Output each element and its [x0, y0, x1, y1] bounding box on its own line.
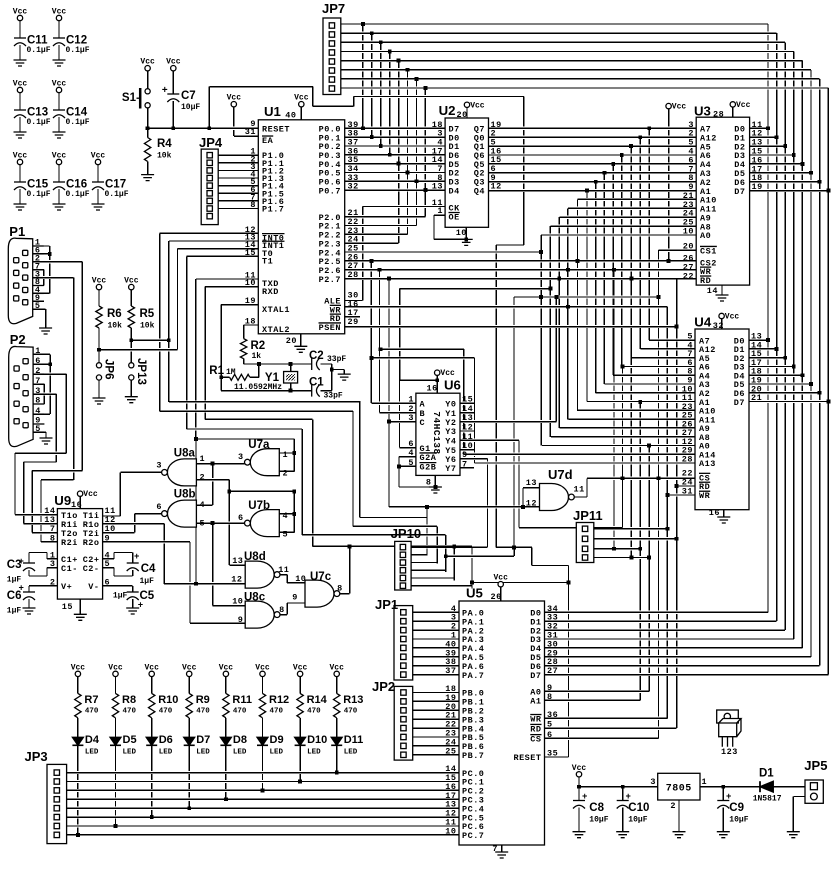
svg-text:Vcc: Vcc [124, 277, 139, 286]
svg-text:36: 36 [547, 710, 558, 720]
resistor R5 10k with JP13 [129, 284, 134, 289]
svg-text:Vcc: Vcc [293, 663, 308, 672]
svg-text:470: 470 [85, 708, 99, 716]
svg-text:Vcc: Vcc [13, 80, 28, 89]
svg-text:Vcc: Vcc [227, 94, 242, 103]
LED D4 [72, 737, 83, 745]
svg-text:A13: A13 [699, 459, 716, 469]
capacitor C13 0.1uF with Vcc and ground [17, 87, 22, 92]
wire crystal caps to ground [338, 374, 351, 380]
IC U5 8255 PPI [459, 601, 545, 845]
svg-text:28: 28 [348, 270, 359, 280]
svg-text:R7: R7 [84, 694, 98, 706]
capacitor C12 0.1uF with Vcc and ground [56, 15, 61, 20]
svg-text:35: 35 [547, 749, 558, 759]
svg-text:R9: R9 [196, 694, 210, 706]
svg-text:G2B: G2B [420, 463, 437, 473]
resistor R6 10k with JP6 [96, 284, 101, 289]
svg-text:R10: R10 [158, 694, 178, 706]
svg-text:1: 1 [702, 777, 708, 787]
svg-text:11: 11 [278, 565, 289, 575]
svg-text:0.1μF: 0.1μF [27, 118, 51, 127]
svg-text:10k: 10k [140, 322, 155, 331]
svg-text:10: 10 [683, 227, 694, 237]
svg-text:5: 5 [200, 519, 206, 529]
svg-text:Vcc: Vcc [91, 152, 106, 161]
svg-text:P0.7: P0.7 [319, 186, 341, 196]
svg-text:Vcc: Vcc [144, 663, 159, 672]
svg-text:R2o: R2o [83, 538, 100, 548]
Vcc pin 20 of U2 [464, 102, 469, 107]
svg-text:+: + [134, 552, 140, 562]
svg-text:10k: 10k [157, 152, 172, 161]
LED D11 [331, 737, 342, 745]
svg-text:10: 10 [456, 228, 467, 238]
Vcc pin 40 of U1 [299, 102, 304, 107]
svg-text:33pF: 33pF [324, 392, 343, 401]
svg-text:2: 2 [670, 801, 676, 811]
svg-text:20: 20 [286, 336, 297, 346]
svg-text:8: 8 [50, 533, 56, 543]
svg-text:JP11: JP11 [573, 508, 603, 523]
resistor R9 470 [187, 671, 192, 676]
connector P1 DB9 [8, 238, 32, 324]
Vcc pin 32 of U4 [719, 313, 724, 318]
svg-text:Vcc: Vcc [440, 369, 455, 378]
svg-text:28: 28 [713, 110, 724, 120]
svg-text:8: 8 [337, 584, 343, 594]
svg-text:16: 16 [709, 508, 720, 518]
svg-text:U5: U5 [466, 586, 483, 601]
svg-text:LED: LED [270, 749, 284, 757]
svg-text:RESET: RESET [513, 753, 541, 763]
capacitor C17 0.1uF with Vcc and ground [95, 159, 100, 164]
IC U2 octal latch [445, 118, 488, 227]
svg-text:Vcc: Vcc [672, 103, 687, 112]
NAND gate U8d [245, 561, 274, 588]
svg-text:A0: A0 [700, 231, 711, 241]
svg-text:C1-: C1- [61, 564, 78, 574]
svg-text:6: 6 [547, 730, 553, 740]
svg-text:33pF: 33pF [327, 355, 346, 364]
svg-text:JP5: JP5 [804, 758, 827, 773]
svg-text:D4: D4 [449, 186, 460, 196]
svg-text:5: 5 [408, 458, 414, 468]
svg-text:0.1μF: 0.1μF [27, 46, 51, 55]
capacitor C2 33pF [311, 358, 313, 370]
resistor R4 10k [144, 138, 150, 162]
svg-text:Vcc: Vcc [83, 490, 98, 499]
svg-text:P1.7: P1.7 [262, 205, 284, 215]
svg-text:4: 4 [200, 500, 206, 510]
capacitor C3 1uF [23, 562, 35, 564]
IC U9 MAX232 [57, 509, 102, 599]
svg-text:U8d: U8d [244, 551, 266, 563]
ground pin 20 of U1 [294, 346, 307, 352]
svg-text:D6: D6 [159, 734, 173, 746]
P2 pin5 to ground [40, 438, 53, 444]
svg-text:Vcc: Vcc [140, 58, 155, 67]
connector JP10 [395, 541, 411, 590]
svg-text:U1: U1 [264, 104, 281, 119]
capacitor C5 1uF [127, 591, 139, 593]
svg-text:1μF: 1μF [140, 577, 155, 586]
IC U6 74HC138 decoder [416, 393, 460, 475]
svg-text:9: 9 [292, 593, 298, 603]
Vcc power node [576, 772, 581, 777]
capacitor C11 0.1uF with Vcc and ground [17, 15, 22, 20]
svg-text:Vcc: Vcc [52, 152, 67, 161]
svg-text:Vcc: Vcc [736, 101, 751, 110]
svg-text:C17: C17 [105, 179, 126, 191]
Vcc for EA pin 31 [231, 102, 236, 107]
capacitor C9 10uF [717, 800, 729, 802]
svg-text:U6: U6 [444, 378, 461, 393]
svg-text:A1: A1 [530, 697, 541, 707]
svg-text:19: 19 [245, 296, 256, 306]
LED D5 [110, 737, 121, 745]
svg-text:C7: C7 [181, 90, 196, 102]
svg-text:U3: U3 [694, 104, 711, 119]
svg-text:4: 4 [283, 511, 289, 521]
svg-text:+: + [626, 792, 632, 802]
svg-text:R13: R13 [343, 694, 363, 706]
svg-text:D1: D1 [759, 768, 774, 780]
capacitor C1 33pF [311, 385, 313, 397]
svg-text:1μF: 1μF [7, 607, 22, 616]
svg-text:1: 1 [283, 450, 289, 460]
svg-text:14: 14 [707, 286, 718, 296]
svg-text:JP1: JP1 [375, 597, 398, 612]
svg-text:P2.7: P2.7 [319, 275, 341, 285]
svg-text:32: 32 [348, 182, 359, 192]
svg-text:26: 26 [491, 592, 502, 602]
P1 pin5 to ground [39, 328, 52, 334]
svg-text:8: 8 [547, 692, 553, 702]
svg-text:0.1μF: 0.1μF [66, 190, 90, 199]
LED D6 [146, 737, 157, 745]
svg-text:Q4: Q4 [474, 186, 485, 196]
svg-text:1μF: 1μF [113, 592, 128, 601]
svg-text:T1: T1 [262, 257, 273, 267]
svg-text:15: 15 [245, 248, 256, 258]
NAND gate U7c [305, 580, 334, 607]
svg-text:U8c: U8c [244, 592, 266, 604]
IC U3 28-pin SRAM [696, 117, 749, 285]
svg-text:C4: C4 [141, 563, 156, 575]
NAND gate U8a [167, 459, 196, 486]
svg-text:R12: R12 [269, 694, 289, 706]
LED D7 [184, 737, 195, 745]
svg-text:D10: D10 [307, 734, 327, 746]
svg-text:V-: V- [88, 582, 99, 592]
svg-text:13: 13 [432, 182, 443, 192]
voltage regulator 7805 [658, 773, 700, 800]
resistor R1 1M [230, 374, 250, 380]
svg-text:D7: D7 [530, 671, 541, 681]
svg-text:U4: U4 [694, 315, 712, 330]
svg-text:9: 9 [238, 615, 244, 625]
capacitor C8 10uF [573, 800, 585, 802]
svg-text:C13: C13 [27, 107, 48, 119]
capacitor C6 1uF [23, 591, 35, 593]
capacitor C10 10uF [617, 800, 629, 802]
svg-text:7805: 7805 [666, 784, 692, 795]
svg-text:+: + [138, 601, 144, 611]
svg-text:25: 25 [445, 746, 456, 756]
svg-text:JP7: JP7 [322, 1, 345, 16]
svg-text:R5: R5 [140, 308, 155, 320]
svg-text:U9: U9 [54, 493, 71, 508]
svg-text:R14: R14 [307, 694, 328, 706]
svg-text:Vcc: Vcc [493, 574, 508, 583]
Vcc pin 28 of U3 [730, 102, 735, 107]
svg-text:R2i: R2i [61, 538, 78, 548]
svg-text:1N5817: 1N5817 [753, 795, 782, 804]
svg-text:12: 12 [231, 575, 242, 585]
NAND gate U8b [167, 500, 196, 527]
svg-text:R8: R8 [122, 694, 136, 706]
svg-text:C: C [420, 418, 426, 428]
wire layer [148, 127, 259, 129]
svg-text:R2: R2 [251, 340, 266, 352]
svg-text:8: 8 [279, 605, 285, 615]
svg-text:13: 13 [232, 556, 243, 566]
capacitor C16 0.1uF with Vcc and ground [56, 159, 61, 164]
svg-text:3: 3 [408, 413, 414, 423]
NAND gate U7d [540, 484, 569, 511]
resistor R2 1k [240, 339, 246, 359]
svg-text:5: 5 [283, 530, 289, 540]
resistor R11 470 [223, 671, 228, 676]
ground pin 14 of U3 [716, 295, 729, 301]
svg-text:18: 18 [245, 317, 256, 327]
svg-text:+: + [162, 86, 169, 97]
svg-text:EA: EA [262, 136, 274, 146]
svg-text:0.1μF: 0.1μF [66, 118, 90, 127]
svg-text:C2: C2 [309, 350, 324, 362]
svg-text:LED: LED [85, 749, 99, 757]
svg-text:74HC138: 74HC138 [431, 411, 442, 454]
svg-text:123: 123 [721, 747, 738, 757]
svg-text:Vcc: Vcc [182, 663, 197, 672]
svg-text:470: 470 [159, 708, 173, 716]
svg-text:XTAL2: XTAL2 [262, 325, 290, 335]
svg-text:3: 3 [650, 777, 656, 787]
svg-text:Vcc: Vcc [71, 663, 86, 672]
svg-text:LED: LED [159, 749, 173, 757]
svg-text:470: 470 [196, 708, 210, 716]
svg-text:U2: U2 [439, 103, 456, 118]
svg-text:Y7: Y7 [445, 464, 456, 474]
svg-text:JP2: JP2 [372, 679, 395, 694]
svg-text:D7: D7 [734, 187, 745, 197]
svg-text:LED: LED [307, 749, 321, 757]
svg-text:6: 6 [238, 513, 244, 523]
svg-text:+: + [19, 557, 25, 567]
svg-text:R6: R6 [107, 308, 122, 320]
svg-text:D4: D4 [85, 734, 100, 746]
svg-text:Vcc: Vcc [294, 94, 309, 103]
svg-text:2: 2 [200, 473, 206, 483]
LED D8 [220, 737, 231, 745]
svg-text:7: 7 [492, 844, 498, 854]
svg-text:0.1μF: 0.1μF [27, 190, 51, 199]
svg-text:R11: R11 [232, 694, 252, 706]
svg-text:WR: WR [530, 715, 542, 725]
svg-text:3: 3 [156, 461, 162, 471]
svg-text:CS: CS [530, 735, 541, 745]
svg-text:D11: D11 [344, 734, 364, 746]
svg-text:10: 10 [232, 597, 243, 607]
svg-text:U7c: U7c [310, 571, 332, 583]
capacitor C4 1uF [127, 562, 139, 564]
resistor R14 470 [297, 671, 302, 676]
svg-text:PSEN: PSEN [319, 323, 341, 333]
svg-text:C12: C12 [66, 35, 87, 47]
resistor R13 470 [334, 671, 339, 676]
NAND gate U7a [250, 449, 279, 476]
svg-text:22: 22 [683, 271, 694, 281]
svg-text:4: 4 [408, 448, 414, 458]
svg-text:P1: P1 [9, 224, 25, 239]
svg-text:OE: OE [449, 213, 460, 223]
svg-text:Vcc: Vcc [13, 152, 28, 161]
svg-text:D7: D7 [734, 398, 745, 408]
svg-text:LED: LED [344, 749, 358, 757]
svg-text:C11: C11 [27, 35, 48, 47]
svg-text:32: 32 [713, 321, 724, 331]
svg-text:13: 13 [526, 478, 537, 488]
svg-text:470: 470 [270, 708, 284, 716]
svg-text:28: 28 [682, 455, 693, 465]
svg-text:S1: S1 [122, 92, 137, 104]
svg-text:5: 5 [547, 720, 553, 730]
svg-text:LED: LED [233, 749, 247, 757]
JP5 pin2 to ground [787, 832, 800, 838]
svg-text:C10: C10 [628, 802, 649, 814]
svg-text:CS1: CS1 [700, 246, 717, 256]
svg-text:470: 470 [307, 708, 321, 716]
svg-text:JP13: JP13 [135, 358, 147, 385]
svg-text:1: 1 [437, 206, 443, 216]
svg-text:U7a: U7a [248, 439, 270, 451]
svg-text:1M: 1M [226, 368, 236, 377]
Vcc pin 26 of U5 [498, 582, 503, 587]
svg-text:PB.7: PB.7 [462, 751, 484, 761]
ground pin 16 of U4 [717, 517, 730, 523]
svg-text:470: 470 [344, 708, 358, 716]
svg-text:WR: WR [699, 491, 711, 501]
svg-text:R1: R1 [209, 365, 224, 377]
svg-text:10μF: 10μF [589, 816, 608, 825]
svg-text:C14: C14 [66, 107, 88, 119]
svg-text:LED: LED [123, 749, 137, 757]
svg-text:10μF: 10μF [181, 103, 200, 112]
ground pin 7 of U5 [495, 852, 508, 858]
svg-text:12: 12 [491, 182, 502, 192]
svg-text:Vcc: Vcc [92, 277, 107, 286]
svg-text:P2: P2 [10, 332, 26, 347]
svg-text:V+: V+ [61, 582, 72, 592]
resistor R8 470 [113, 671, 118, 676]
svg-text:6: 6 [105, 577, 111, 587]
NAND gate U7b [250, 510, 279, 537]
svg-text:JP4: JP4 [199, 135, 223, 150]
capacitor C7 10uF [171, 66, 176, 71]
capacitor C14 0.1uF with Vcc and ground [56, 87, 61, 92]
svg-text:10k: 10k [108, 322, 123, 331]
ground pin 15 of U9 [74, 614, 87, 620]
svg-text:C9: C9 [729, 802, 744, 814]
connector JP1 [394, 606, 413, 680]
svg-text:PA.7: PA.7 [462, 671, 484, 681]
crystal Y1 11.0592MHz [284, 372, 298, 384]
svg-text:C16: C16 [66, 179, 87, 191]
svg-text:U8a: U8a [174, 448, 196, 460]
svg-text:2: 2 [50, 577, 56, 587]
svg-text:+: + [726, 792, 732, 802]
svg-text:470: 470 [123, 708, 137, 716]
svg-text:Vcc: Vcc [219, 663, 234, 672]
svg-text:D7: D7 [196, 734, 210, 746]
svg-text:16: 16 [427, 384, 438, 394]
svg-text:Vcc: Vcc [329, 663, 344, 672]
svg-text:JP3: JP3 [25, 749, 48, 764]
svg-text:JP6: JP6 [103, 359, 115, 379]
svg-text:C8: C8 [589, 802, 604, 814]
resistor R7 470 [75, 671, 80, 676]
svg-text:0.1μF: 0.1μF [66, 46, 90, 55]
svg-text:Vcc: Vcc [255, 663, 270, 672]
svg-text:2: 2 [283, 469, 289, 479]
connector JP3 [47, 764, 67, 843]
Vcc pin 16 of U6 and G1 tie [435, 370, 440, 375]
svg-text:R4: R4 [157, 138, 172, 150]
svg-text:31: 31 [245, 127, 256, 137]
svg-text:RESET: RESET [262, 125, 290, 135]
svg-text:D9: D9 [270, 734, 284, 746]
svg-text:Vcc: Vcc [52, 80, 67, 89]
LED D9 [257, 737, 268, 745]
svg-text:8: 8 [426, 478, 432, 488]
svg-text:29: 29 [348, 317, 359, 327]
ground pin 10 of U2 [460, 239, 473, 245]
Vcc pin 16 of U9 [77, 491, 82, 496]
svg-text:10μF: 10μF [628, 816, 647, 825]
ground pin 8 of U6 [429, 487, 442, 493]
IC U1 8051 microcontroller [258, 120, 344, 334]
svg-text:470: 470 [233, 708, 247, 716]
resistor R10 470 [149, 671, 154, 676]
svg-text:5: 5 [105, 559, 111, 569]
svg-text:RD: RD [530, 724, 541, 734]
svg-text:9: 9 [105, 533, 111, 543]
connector JP2 [394, 686, 413, 760]
svg-text:31: 31 [682, 487, 693, 497]
IC U4 32-pin memory [695, 329, 749, 510]
svg-text:27: 27 [547, 666, 558, 676]
svg-text:RXD: RXD [262, 287, 279, 297]
svg-text:6: 6 [156, 502, 162, 512]
svg-text:Vcc: Vcc [572, 764, 587, 773]
TO-220 package drawing [717, 710, 739, 723]
svg-text:Vcc: Vcc [725, 313, 740, 322]
svg-text:C15: C15 [27, 179, 49, 191]
svg-text:10: 10 [445, 826, 456, 836]
capacitor C15 0.1uF with Vcc and ground [17, 159, 22, 164]
svg-text:C2-: C2- [83, 564, 100, 574]
